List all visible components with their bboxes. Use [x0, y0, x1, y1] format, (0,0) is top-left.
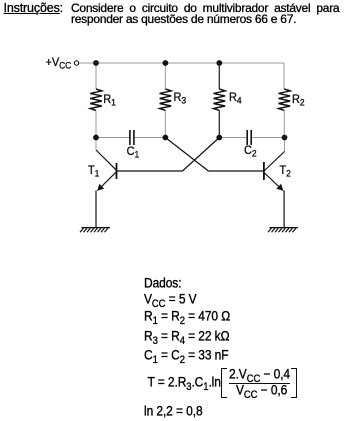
+Vcc terminal circle: [74, 61, 78, 65]
wire: R3 top stub: [164, 63, 166, 89]
wire: cross-couple R4 to T1 base: [117, 138, 219, 172]
capacitor C2: [247, 130, 251, 145]
wire: R2 bottom stub: [283, 111, 285, 138]
wire: R3 bottom stub: [164, 111, 166, 138]
formula denominator: [236, 383, 287, 402]
wire: T2 collector stub: [284, 138, 286, 152]
wire: R4 bottom stub: [218, 111, 220, 138]
junction node Vcc-R1: [93, 60, 99, 66]
resistor R4: [214, 89, 226, 110]
wire: top Vcc rail: [79, 62, 284, 64]
label T1: [88, 165, 99, 180]
label +Vcc: [46, 57, 72, 72]
resistor R3: [160, 89, 172, 110]
wire: bottom segment C2 to R2 dot: [252, 137, 285, 139]
junction node R1-C1-T1 collector: [93, 135, 99, 141]
label C2: [244, 145, 257, 160]
junction node C1-R3: [163, 135, 169, 141]
wire: R4 top stub: [218, 63, 220, 89]
wire: bottom segment C1 to R3 dot: [134, 137, 165, 139]
T2 emitter arrowhead: [276, 184, 283, 191]
resistor R2: [278, 89, 290, 110]
formula numerator: [229, 367, 290, 386]
ground right: [268, 228, 298, 233]
formula open bracket: [221, 368, 227, 398]
formula T = 2.R3.C1.ln[...]: [148, 375, 221, 394]
T1 emitter arrowhead: [97, 184, 104, 191]
junction node R4-C2: [216, 135, 222, 141]
capacitor C1: [130, 130, 134, 145]
dados C1 C2 value: [144, 348, 228, 367]
wire: T1 emitter to ground: [95, 191, 97, 228]
wire: cross-couple R3 to T2 base: [165, 138, 263, 172]
junction node Vcc-R3: [163, 60, 169, 66]
dados heading: [144, 276, 181, 290]
transistor T2: [264, 152, 285, 191]
dados R3 R4 value: [144, 329, 229, 348]
resistor R1: [90, 89, 102, 110]
label R2: [292, 94, 305, 109]
transistor T1: [96, 150, 117, 191]
wire: R1 bottom stub: [95, 111, 97, 138]
dados R1 R2 value: [144, 309, 230, 328]
label C1: [127, 146, 140, 161]
dados Vcc value: [144, 292, 197, 311]
instructions paragraph: [4, 3, 64, 14]
formula fraction bar: [229, 383, 290, 384]
label R1: [103, 94, 116, 109]
label R4: [229, 92, 242, 107]
wire: bottom segment R4 dot to C2: [219, 137, 247, 139]
wire: bottom segment R1 dot to C1: [96, 137, 129, 139]
ground left: [80, 228, 110, 233]
dados ln value: [144, 404, 203, 418]
wire: R1 top stub: [95, 63, 97, 89]
formula close bracket: [291, 368, 297, 398]
junction node Vcc-R4: [216, 60, 222, 66]
wire: T2 emitter to ground: [283, 191, 285, 228]
wire: right corner drop to R2: [283, 63, 285, 89]
label R3: [174, 92, 187, 107]
junction node C2-R2-T2 collector: [282, 135, 288, 141]
wire: T1 collector stub: [95, 138, 97, 151]
label T2: [280, 165, 291, 180]
